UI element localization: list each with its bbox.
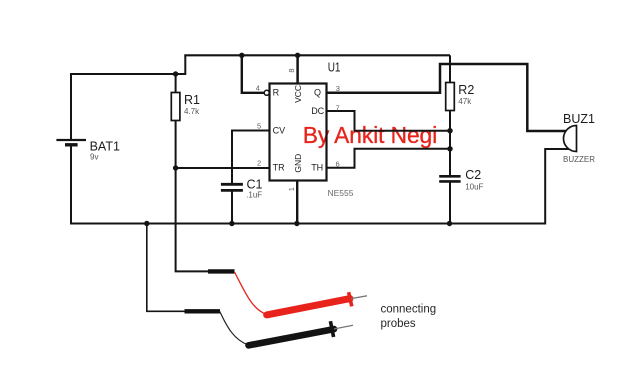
svg-text:6: 6 xyxy=(336,160,340,169)
svg-text:probes: probes xyxy=(381,318,416,330)
wire pin4 reset branch xyxy=(242,55,264,93)
svg-text:10uF: 10uF xyxy=(465,182,483,191)
svg-text:4.7k: 4.7k xyxy=(184,107,200,116)
resistor R1 body xyxy=(171,93,180,121)
wire bottom ground rail xyxy=(70,223,545,225)
svg-text:DC: DC xyxy=(311,106,324,116)
red probe flex wire xyxy=(235,272,267,315)
wire Q output pin3 to buzzer xyxy=(327,64,567,131)
black probe tip xyxy=(334,325,353,329)
node R1 top junction xyxy=(173,71,178,76)
red probe crossbar xyxy=(349,292,352,306)
wire CV pin5 to C1 xyxy=(232,131,270,184)
wire pin8 vcc branch xyxy=(296,55,299,83)
black probe crossbar xyxy=(330,321,333,337)
node ground probe junction xyxy=(144,221,149,226)
svg-text:47k: 47k xyxy=(458,97,472,106)
black probe flex wire xyxy=(220,312,249,346)
wire horizontal y74 from battery to riser xyxy=(70,73,185,75)
node DC R2 junction xyxy=(447,128,452,133)
svg-text:C2: C2 xyxy=(465,168,481,182)
svg-text:CV: CV xyxy=(273,125,286,135)
svg-text:U1: U1 xyxy=(328,61,341,75)
svg-text:C1: C1 xyxy=(247,177,263,191)
wire R1 top lead xyxy=(175,74,177,93)
svg-text:TH: TH xyxy=(311,162,323,172)
wire buzzer bottom to ground rail xyxy=(545,149,570,225)
pin R inversion bubble pin4 xyxy=(264,90,269,95)
svg-text:BAT1: BAT1 xyxy=(90,139,120,153)
wire C2 bottom lead xyxy=(449,182,451,224)
svg-text:.1uF: .1uF xyxy=(246,191,262,200)
svg-text:connecting: connecting xyxy=(381,304,437,316)
capacitor C2 plates xyxy=(439,176,460,181)
wire riser to top rail xyxy=(184,55,186,75)
svg-text:1: 1 xyxy=(287,187,296,191)
svg-text:By Ankit Negi: By Ankit Negi xyxy=(303,122,437,148)
svg-text:7: 7 xyxy=(336,103,340,112)
wire TR pin2 to R1 bottom xyxy=(176,167,270,169)
wire R1 bottom lead down through rail to probe xyxy=(176,121,208,272)
red probe body xyxy=(267,299,350,315)
buzzer BUZ1 symbol xyxy=(564,126,577,152)
wire GND pin1 lead xyxy=(296,181,298,224)
svg-text:BUZZER: BUZZER xyxy=(563,155,595,164)
wire ground probe drop xyxy=(147,224,185,312)
svg-text:NE555: NE555 xyxy=(328,188,354,198)
capacitor C1 plates xyxy=(221,184,243,190)
node C1 ground junction xyxy=(229,221,234,226)
svg-text:9v: 9v xyxy=(90,152,98,161)
probe lead thick black segment lower xyxy=(185,309,221,313)
svg-text:TR: TR xyxy=(273,162,285,172)
node TH R2 junction xyxy=(447,146,452,151)
svg-text:3: 3 xyxy=(336,84,340,93)
svg-text:5: 5 xyxy=(257,121,261,130)
svg-text:BUZ1: BUZ1 xyxy=(563,112,595,126)
svg-text:2: 2 xyxy=(257,159,261,168)
svg-text:4: 4 xyxy=(256,84,260,93)
probe lead thick black segment upper xyxy=(208,269,235,273)
node pin8 rail junction xyxy=(295,53,300,58)
battery BAT1 plates xyxy=(56,140,86,145)
svg-text:Q: Q xyxy=(314,88,321,98)
svg-text:R: R xyxy=(273,88,280,98)
wire R2 bottom lead to C2 xyxy=(449,111,451,176)
wire battery negative lead down xyxy=(70,145,72,224)
op-amp U1 ic NE555 body xyxy=(270,84,327,181)
svg-text:GND: GND xyxy=(293,154,303,173)
svg-text:R2: R2 xyxy=(458,83,474,97)
svg-text:R1: R1 xyxy=(184,93,200,107)
node pin4 rail junction xyxy=(239,53,244,58)
wire top VCC rail y55 xyxy=(184,54,450,56)
red probe tip xyxy=(351,296,367,299)
svg-text:8: 8 xyxy=(287,68,296,72)
node C2 ground junction xyxy=(447,221,452,226)
node TR R1 junction xyxy=(173,165,178,170)
wire R2 top lead xyxy=(449,55,451,82)
wire C1 bottom lead xyxy=(231,191,233,224)
resistor R2 body xyxy=(446,83,455,111)
svg-text:VCC: VCC xyxy=(293,85,303,103)
wire DC pin7 to R2 node xyxy=(327,111,451,131)
wire battery positive to y74 corner xyxy=(70,74,72,140)
node pin1 ground junction xyxy=(294,221,299,226)
wire TH pin6 to R2 node xyxy=(327,149,451,168)
black probe body xyxy=(249,329,335,345)
